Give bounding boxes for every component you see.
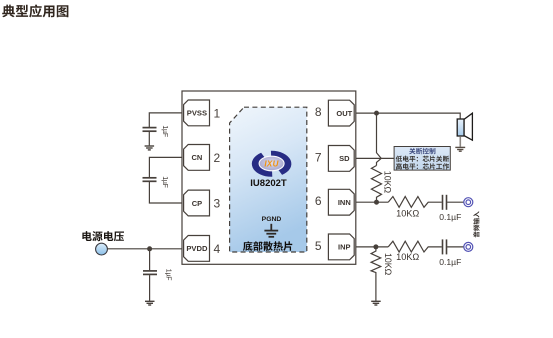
wire INP	[356, 246, 388, 248]
op IC body U1 IU8202T	[182, 91, 356, 264]
svg-text:PVDD: PVDD	[186, 244, 208, 253]
junction node PVDD/C3	[147, 246, 152, 251]
junction node INP/R4	[373, 244, 378, 249]
wire INN	[356, 201, 388, 203]
pin 5 INP	[315, 234, 354, 260]
svg-text:3: 3	[213, 197, 220, 211]
pin 2 CN	[184, 145, 221, 171]
svg-text:INP: INP	[338, 243, 351, 252]
svg-text:CN: CN	[191, 153, 202, 162]
label C3 1uF	[165, 269, 172, 280]
wire junction to C3	[149, 249, 151, 270]
junction node OUT/R1	[374, 111, 379, 116]
label R3 10K	[396, 252, 419, 262]
speaker LS1	[457, 113, 472, 140]
ground (C1)	[145, 146, 155, 150]
svg-text:10KΩ: 10KΩ	[396, 209, 419, 219]
svg-text:10KΩ: 10KΩ	[396, 252, 419, 262]
resistor R3 10K (INP series)	[388, 241, 442, 252]
resistor R2 10K (INN series)	[388, 197, 442, 208]
svg-text:2: 2	[213, 151, 220, 165]
pin 4 PVDD	[184, 236, 221, 262]
input terminal (INP)	[464, 242, 473, 251]
resistor R4 10K (INP pulldown)	[371, 247, 381, 301]
svg-text:8: 8	[315, 105, 322, 119]
wire OUT to speaker	[356, 113, 460, 119]
wire C4 to input terminal	[447, 201, 464, 203]
capacitor C4 0.1uF	[443, 195, 447, 210]
ground (PGND pad)	[264, 224, 278, 237]
svg-text:1µF: 1µF	[161, 125, 168, 136]
wire CN to C2 to CP	[149, 157, 182, 203]
junction node INN/R1	[374, 200, 379, 205]
svg-text:1µF: 1µF	[161, 176, 168, 187]
pin 6 INN	[315, 189, 354, 215]
svg-text:7: 7	[315, 150, 322, 164]
label C1 1uF	[161, 125, 168, 136]
svg-text:CP: CP	[192, 199, 202, 208]
capacitor C5 0.1uF	[443, 239, 447, 254]
svg-text:INN: INN	[338, 198, 351, 207]
PGND label	[262, 216, 282, 223]
svg-text:0.1µF: 0.1µF	[439, 212, 461, 222]
ground (R4)	[371, 301, 381, 305]
ground (C3)	[145, 301, 155, 305]
svg-text:SD: SD	[339, 154, 350, 163]
svg-text:IXU: IXU	[264, 159, 279, 168]
wire C3 to ground	[149, 275, 151, 301]
svg-text:4: 4	[213, 242, 220, 256]
capacitor C3 1uF	[143, 271, 157, 275]
svg-text:OUT: OUT	[336, 109, 352, 118]
label R2 10K	[396, 209, 419, 219]
svg-text:10KΩ: 10KΩ	[382, 171, 392, 194]
svg-text:1µF: 1µF	[165, 269, 172, 280]
svg-text:10KΩ: 10KΩ	[383, 253, 393, 276]
svg-text:0.1µF: 0.1µF	[439, 257, 461, 267]
svg-text:5: 5	[315, 239, 322, 253]
resistor R1 10K (OUT-INN feedback)	[371, 166, 381, 203]
wire C1 to ground	[148, 132, 150, 146]
label 音频输入 (rotated)	[473, 211, 479, 237]
wire OUT feedback down with jog over SD	[377, 113, 382, 165]
wire PVDD	[108, 248, 183, 250]
pin 8 OUT	[315, 100, 354, 126]
logo swirl (IXU)	[252, 151, 292, 177]
pin 1 PVSS	[184, 100, 221, 126]
svg-text:PVSS: PVSS	[187, 109, 207, 118]
wire C5 to input terminal	[447, 246, 464, 248]
wire speaker to ground	[459, 136, 461, 147]
pad label 底部散热片	[243, 241, 292, 251]
power input terminal	[96, 243, 108, 255]
shutdown control note box	[394, 147, 450, 171]
chip name label IU8202T	[250, 178, 287, 189]
label 电源电压	[82, 231, 124, 241]
pin 7 SD	[315, 146, 354, 172]
svg-text:6: 6	[315, 194, 322, 208]
thermal pad (dashed)	[230, 107, 307, 252]
pin 3 CP	[184, 190, 221, 216]
svg-text:PGND: PGND	[262, 216, 282, 223]
label C5 0.1uF	[439, 257, 461, 267]
ground (speaker)	[455, 147, 465, 151]
wire PVSS to C1	[149, 113, 182, 127]
svg-text:IU8202T: IU8202T	[250, 178, 287, 189]
input terminal (INN)	[464, 198, 473, 207]
title 典型应用图	[2, 5, 68, 18]
capacitor C1 1uF	[143, 128, 157, 132]
capacitor C2 1uF (flying)	[143, 178, 157, 182]
label R4 10K	[383, 253, 393, 276]
wire SD to control box	[356, 157, 394, 159]
label C4 0.1uF	[439, 212, 461, 222]
label R1 10K	[382, 171, 392, 194]
svg-text:1: 1	[213, 106, 220, 120]
label C2 1uF	[161, 176, 168, 187]
